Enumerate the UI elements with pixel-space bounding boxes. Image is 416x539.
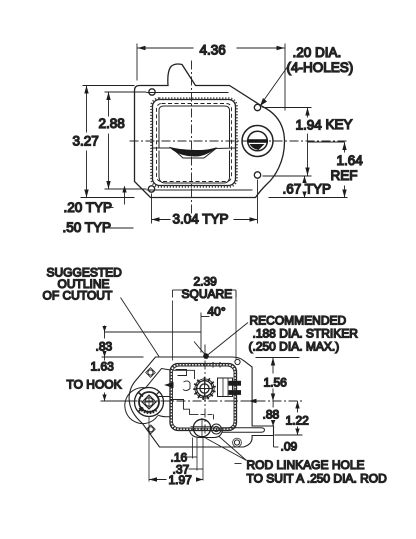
svg-text:.83: .83 [96,340,113,354]
boss collar [146,369,171,389]
cam gear core [197,381,213,397]
dim 3.27 line [86,86,88,133]
hole top-left [149,89,155,95]
dim 4.36 extension left [136,44,138,81]
latch bolt [218,378,233,397]
vertical centerline [191,61,193,217]
rod linkage hole [193,419,210,436]
paddle grip shadow [169,147,217,157]
hook arm outline [158,397,171,417]
pan scallop texture [171,365,235,430]
svg-text:.67 TYP: .67 TYP [283,182,332,197]
dim 1.97 line [149,479,167,481]
leader rod dash [235,463,242,465]
1.22 extension bottom [275,434,303,436]
rear horizontal centerline [129,400,303,402]
hook boss outer [135,388,164,417]
plate bottom extension right [269,197,348,199]
hole bottom-right [254,172,260,178]
hole top-right rear [235,359,240,364]
lock face [248,131,268,151]
svg-text:.188 DIA. STRIKER: .188 DIA. STRIKER [253,327,359,341]
cam gear hub [200,384,209,393]
internal step right [194,414,214,419]
svg-text:1.63: 1.63 [91,360,115,374]
bolt jaw lower [229,390,242,395]
2.39 extension right [235,292,237,360]
hook boss nut [142,395,156,409]
dim 1.94 extension top [263,107,312,109]
lock bezel [242,126,273,157]
housing pan inner [173,366,235,428]
cam gear teeth [193,377,216,400]
leader striker [207,323,248,356]
housing pan outer [170,364,237,431]
dim 1.63 line bottom [104,393,106,402]
key slot [248,139,268,142]
svg-text:TO HOOK: TO HOOK [67,378,122,392]
svg-text:KEY: KEY [326,117,353,132]
dim 3.04 extension left [151,194,153,224]
40 deg angle line [194,342,206,356]
hole bottom-left [148,186,154,192]
svg-text:1.94: 1.94 [296,118,323,133]
cutout outline octagon [129,357,273,447]
centerline arrow [249,399,257,403]
leader .20 DIA [262,63,291,104]
paddle grip curve [153,148,236,158]
dim 2.88 line [108,92,110,117]
rear vertical centerline [204,345,206,438]
dim 2.88 extension top [105,91,147,93]
svg-text:40°: 40° [208,305,226,319]
paddle recess outer rim [153,100,236,186]
svg-text:3.27: 3.27 [73,134,99,149]
cam gear ring [195,379,214,398]
svg-text:4.36: 4.36 [200,43,226,58]
hook boss ring [139,392,159,412]
key slot wedge [250,144,265,150]
svg-text:3.04 TYP: 3.04 TYP [173,212,229,227]
recess rim hatching [151,98,237,187]
bottom extension b [196,438,198,471]
internal plate staircase [170,400,194,415]
plate outline [135,64,285,198]
leader rod 1 [219,436,247,461]
hook direction arrow [164,382,174,388]
leader .50 TYP [107,227,134,229]
svg-text:(.250 DIA. MAX.): (.250 DIA. MAX.) [249,340,340,354]
svg-text:ROD LINKAGE HOLE: ROD LINKAGE HOLE [247,458,365,472]
dim .83 top line [105,331,202,333]
svg-text:RECOMMENDED: RECOMMENDED [250,314,347,328]
dim .67 TYP line [304,176,306,182]
svg-text:1.22: 1.22 [286,414,310,428]
dim .88 line [272,401,274,408]
cam cross [196,388,213,390]
svg-text:.09: .09 [281,440,298,454]
dim 4.36 line [138,47,194,49]
dim .83 line [104,326,106,339]
pan bottom bulge [190,430,223,438]
paddle lower body [159,151,230,184]
top crease line [147,92,229,94]
svg-text:TO SUIT A .250 DIA. ROD: TO SUIT A .250 DIA. ROD [247,472,388,486]
svg-text:1.56: 1.56 [264,376,288,390]
svg-text:REF: REF [331,168,358,183]
dim 1.94 line [307,108,309,118]
bolt jaw upper [229,381,242,386]
hook centerline extension [101,400,129,402]
striker slot dashes [212,362,214,369]
dim 3.27 extension bottom [81,197,135,199]
dim 3.04 line [152,219,171,221]
leader rod 2 [206,438,247,461]
cutout top extension left [102,356,144,358]
horizontal centerline [130,140,347,142]
bottom extension a [192,438,194,459]
hole top-right [254,104,260,110]
hook boss hole [145,398,153,406]
paddle cup [159,106,230,148]
hole top-left rear [148,370,153,375]
dim 1.56 line [272,358,274,374]
svg-text:OF CUTOUT: OF CUTOUT [43,289,113,303]
svg-text:2.88: 2.88 [99,116,125,131]
2.39 extension left [172,301,174,361]
dim 1.64 line [344,142,346,153]
dim 3.27 extension top [83,85,135,87]
bottom crease line [147,189,253,191]
dim 1.64 REF jog [308,141,345,143]
leader .20 TYP [108,207,114,209]
dim 2.39 SQUARE bracket [173,289,189,291]
hook knurl [140,408,157,413]
striker point [203,353,209,359]
hole bottom-right rear [234,440,239,445]
rod arm [222,428,265,433]
internal plate top [174,370,195,379]
dim 1.94 extension bottom [263,175,312,177]
bottom extension c [202,438,204,481]
svg-text:1.64: 1.64 [337,153,364,168]
dim 4.36 extension right [284,44,286,111]
svg-text:(4-HOLES): (4-HOLES) [287,60,354,75]
spring detail [176,370,187,376]
dim 3.04 extension right [257,180,259,224]
bottom extension hook [148,417,150,482]
dim .09 bracket [273,436,275,448]
svg-text:SQUARE: SQUARE [182,287,233,301]
svg-text:.50 TYP: .50 TYP [63,220,112,235]
leader cutout [121,298,160,357]
dim 1.22 line [297,401,299,413]
svg-text:1.97: 1.97 [169,473,193,487]
dim 2.88 extension bottom [105,188,147,190]
40 deg bracket [200,313,202,353]
recess inner dashed line [157,104,232,182]
svg-text:.88: .88 [263,408,280,422]
hole bottom-left rear [148,427,153,432]
boss notch marks [139,393,144,397]
svg-text:.20 TYP: .20 TYP [64,200,113,215]
hook curl [183,381,190,391]
rod hole small [211,424,221,434]
hook boss cross [142,401,157,403]
cutout top extension right [256,357,300,359]
svg-text:.20 DIA.: .20 DIA. [293,45,342,60]
